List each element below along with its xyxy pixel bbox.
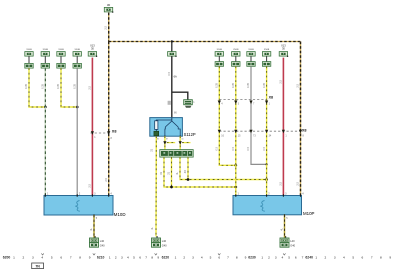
svg-text:6: 6 (139, 255, 141, 259)
wire: black branch to ground point (172, 92, 188, 99)
svg-text:6230: 6230 (248, 255, 256, 259)
svg-text:6220: 6220 (162, 255, 170, 259)
svg-text:X50B: X50B (43, 49, 49, 51)
svg-text:1: 1 (109, 255, 111, 259)
svg-text:2: 2 (183, 255, 185, 259)
svg-text:7: 7 (302, 255, 304, 259)
svg-text:6240: 6240 (305, 255, 313, 259)
off-page row X8 right lower (219, 130, 300, 132)
svg-text:2.5: 2.5 (104, 25, 108, 29)
ground connector below M10D (90, 238, 99, 243)
svg-text:G40: G40 (290, 243, 295, 247)
svg-text:8: 8 (380, 255, 382, 259)
connector fuse F6 (168, 52, 176, 57)
svg-text:7: 7 (145, 255, 147, 259)
svg-text:0.35: 0.35 (232, 82, 235, 87)
svg-text:4: 4 (282, 255, 284, 259)
svg-text:2.5: 2.5 (104, 177, 108, 181)
svg-text:1: 1 (13, 255, 15, 259)
wire: bus drop right side down to M10P pin4 (300, 42, 302, 196)
wire: stub bus to fuse connector (171, 42, 173, 52)
connector pair R3 (247, 52, 255, 57)
connector pair L4 (73, 52, 81, 57)
wire: M10P down to ground connector (284, 214, 285, 216)
svg-text:X50B: X50B (248, 49, 254, 51)
svg-text:0.35: 0.35 (25, 83, 28, 88)
M10D pins 1-4 (45, 194, 46, 196)
svg-text:0.5: 0.5 (232, 146, 235, 150)
svg-text:8: 8 (151, 255, 153, 259)
motor glyph M10P (260, 201, 265, 212)
node j6 (265, 178, 268, 181)
connector strip X below relay (160, 150, 193, 158)
svg-text:3: 3 (334, 255, 336, 259)
wire: grey down to M10D pin2 (76, 68, 78, 195)
wire: R2 yellow down to M10P pin1 (235, 66, 237, 195)
node j1 (44, 106, 47, 109)
motor M10P box (233, 196, 302, 215)
svg-text:G40: G40 (100, 243, 105, 247)
svg-text:2.5: 2.5 (279, 79, 283, 83)
svg-text:X50B: X50B (264, 49, 270, 51)
connector pair L3 (57, 52, 65, 57)
wire: BK/YE bus across top (109, 41, 301, 43)
svg-text:9: 9 (157, 255, 159, 259)
svg-text:7: 7 (70, 255, 72, 259)
svg-text:1: 1 (261, 255, 263, 259)
svg-text:0.35: 0.35 (73, 83, 76, 88)
svg-text:6: 6 (218, 255, 220, 259)
svg-text:X8: X8 (269, 96, 273, 100)
svg-text:0.35: 0.35 (42, 83, 45, 88)
node j3 (170, 186, 173, 189)
svg-text:9: 9 (89, 255, 91, 259)
svg-text:6: 6 (295, 255, 297, 259)
svg-text:2.5: 2.5 (88, 85, 92, 89)
node j7 (234, 164, 237, 167)
svg-text:4: 4 (201, 255, 203, 259)
svg-text:L40: L40 (290, 239, 295, 243)
off-page row X8 right upper (219, 98, 266, 100)
svg-text:X50B: X50B (217, 49, 223, 51)
svg-text:6: 6 (362, 255, 364, 259)
wire: R1 yellow down, L to node j5 (219, 66, 236, 165)
svg-text:3: 3 (192, 255, 194, 259)
wire: supply down from X1 to bus (108, 13, 110, 42)
svg-text:6A: 6A (174, 75, 177, 79)
wire: relay pin85 yellow long down (155, 136, 157, 236)
svg-text:5: 5 (51, 255, 53, 259)
svg-text:6: 6 (60, 255, 62, 259)
svg-text:0.35: 0.35 (57, 83, 60, 88)
inline arrow a2 (179, 141, 182, 145)
node bus tap (171, 40, 173, 42)
svg-text:7: 7 (371, 255, 373, 259)
ground connector (184, 100, 193, 105)
relay contact (171, 118, 173, 121)
svg-text:X50B: X50B (26, 49, 32, 51)
motor glyph M10D (75, 201, 80, 212)
wire: R4 yellow down to M10P pin2 (266, 66, 268, 195)
node j5 (234, 186, 237, 189)
wire: BK/YE down to M10D pin4 (108, 42, 110, 196)
svg-text:X50B: X50B (233, 49, 239, 51)
svg-text:5: 5 (210, 255, 212, 259)
svg-text:7N: 7N (35, 265, 40, 269)
svg-text:X50B: X50B (58, 49, 64, 51)
wire: yellow 2 L-shape into node (61, 68, 77, 107)
svg-text:5: 5 (133, 255, 135, 259)
connector pair L2 (41, 52, 49, 57)
motor M10D box (44, 196, 113, 216)
svg-text:2.5: 2.5 (296, 83, 300, 87)
svg-text:2.5: 2.5 (88, 183, 92, 187)
svg-text:3: 3 (32, 255, 34, 259)
svg-text:2: 2 (115, 255, 117, 259)
ground connector below M10P (280, 238, 289, 243)
wire: M10D down to ground connector (93, 214, 94, 216)
svg-text:2.5: 2.5 (279, 181, 283, 185)
svg-text:7: 7 (227, 255, 229, 259)
connector pair R2 (232, 52, 240, 57)
svg-text:S112P: S112P (184, 132, 196, 137)
wires: strip outputs (164, 157, 236, 187)
svg-text:0.5: 0.5 (263, 146, 266, 150)
svg-text:8: 8 (79, 255, 81, 259)
svg-text:8: 8 (236, 255, 238, 259)
relay coil (resistor) (156, 118, 172, 121)
svg-text:0.35: 0.35 (263, 82, 266, 87)
connector pair L1 (25, 52, 33, 57)
svg-text:X8: X8 (302, 128, 307, 132)
svg-text:1: 1 (315, 255, 317, 259)
svg-text:2.5: 2.5 (296, 181, 300, 185)
off-page row X8 left (91, 132, 112, 134)
svg-text:2: 2 (325, 255, 327, 259)
svg-text:9: 9 (389, 255, 391, 259)
svg-text:5: 5 (352, 255, 354, 259)
node j8 (265, 163, 267, 165)
relay pins 85/87/30 (156, 136, 157, 138)
svg-text:M10P: M10P (303, 211, 315, 216)
svg-text:5: 5 (288, 255, 290, 259)
svg-text:X8: X8 (112, 129, 117, 133)
svg-text:L40: L40 (162, 239, 167, 243)
relay S112P box (150, 118, 183, 137)
svg-text:3: 3 (121, 255, 123, 259)
svg-text:0.5: 0.5 (247, 146, 250, 150)
svg-text:6210: 6210 (97, 255, 105, 259)
node j4 (187, 178, 190, 181)
svg-text:3: 3 (275, 255, 277, 259)
svg-text:1: 1 (175, 255, 177, 259)
wire: yellow 1 L-shape into node (29, 68, 45, 107)
svg-text:2: 2 (23, 255, 25, 259)
svg-text:X50B: X50B (75, 49, 81, 51)
track marker chevrons (41, 253, 43, 255)
wire: black down to relay (171, 56, 173, 117)
inline arrow a1 (163, 141, 166, 145)
svg-text:4: 4 (343, 255, 345, 259)
svg-text:0.5: 0.5 (216, 146, 219, 150)
wire: relay pin87 down to strip (164, 136, 166, 149)
connector pair R1 (215, 52, 223, 57)
footnote box 7N (32, 263, 44, 269)
svg-text:0.5: 0.5 (168, 71, 171, 75)
wire: relay pin30 down to strip (179, 136, 181, 149)
wire: R3 grey down, L to yellow (251, 66, 267, 164)
connector pair R4 (262, 52, 270, 57)
M10P pins 1-4 (235, 194, 236, 196)
node j2 (76, 106, 79, 109)
svg-text:30: 30 (107, 3, 111, 7)
ground connector centre (relay 85) (152, 238, 161, 243)
svg-text:4: 4 (41, 255, 43, 259)
svg-text:0.35: 0.35 (216, 82, 219, 87)
svg-text:M10D: M10D (114, 212, 126, 217)
svg-text:G40: G40 (162, 243, 167, 247)
svg-text:0.35: 0.35 (247, 82, 250, 87)
wire: green-black down to M10D pin1 (44, 68, 46, 195)
svg-text:L40: L40 (100, 239, 105, 243)
wire: red down to M10D pin3 (91, 58, 93, 196)
svg-text:4R: 4R (184, 170, 187, 173)
wire: red down to M10P pin3 (282, 58, 284, 196)
svg-text:4: 4 (127, 255, 129, 259)
svg-text:6200: 6200 (3, 255, 11, 259)
ground symbol (185, 106, 191, 108)
svg-text:2: 2 (268, 255, 270, 259)
svg-text:9: 9 (245, 255, 247, 259)
